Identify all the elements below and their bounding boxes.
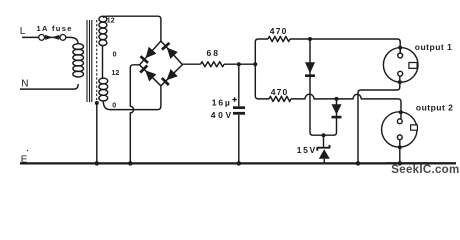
svg-text:L: L <box>20 26 26 37</box>
svg-text:470: 470 <box>271 87 289 97</box>
svg-text:SeekIC.com: SeekIC.com <box>391 164 459 176</box>
svg-text:470: 470 <box>270 26 288 36</box>
svg-text:0: 0 <box>112 102 116 109</box>
svg-text:12: 12 <box>107 18 115 25</box>
svg-text:0: 0 <box>113 51 117 58</box>
svg-text:output 2: output 2 <box>416 103 454 113</box>
svg-text:E: E <box>21 154 28 165</box>
svg-text:output 1: output 1 <box>415 42 453 52</box>
svg-text:15V: 15V <box>297 145 317 155</box>
svg-text:68: 68 <box>207 48 220 58</box>
svg-text:12: 12 <box>112 70 120 77</box>
svg-text:16µ: 16µ <box>212 97 232 107</box>
svg-text:1A fuse: 1A fuse <box>37 24 73 33</box>
svg-text:N: N <box>21 79 28 90</box>
svg-text:40V: 40V <box>211 110 234 120</box>
